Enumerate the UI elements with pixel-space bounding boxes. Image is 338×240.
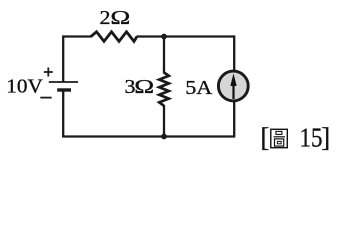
caption: CJK character "tu" (figure) drawn as strokes — [271, 129, 288, 147]
current source I1 arrow (pointing up) — [230, 73, 236, 99]
wire: 3-ohm resistor bottom lead to bottom node — [163, 105, 165, 137]
voltage source V1: battery short thick plate (-) — [57, 88, 71, 91]
resistor R1 body (2 ohm, horizontal zigzag) — [91, 32, 137, 42]
label: battery + polarity mark — [44, 68, 53, 77]
wire: battery + terminal up to top-left corner and across to 2-ohm resistor — [63, 37, 91, 83]
svg-text:2: 2 — [100, 6, 111, 29]
current source I1 body (5A, circle) — [218, 71, 248, 101]
label: battery - polarity mark — [40, 97, 51, 99]
voltage source V1: battery long thin plate (+) — [49, 81, 78, 83]
svg-text:[: [ — [260, 123, 269, 153]
resistor R2 body (3 ohm, vertical zigzag) — [159, 73, 169, 106]
node: bottom junction dot — [161, 134, 167, 140]
wire: bottom node across to bottom-right corner and up to current source bottom — [164, 102, 234, 137]
svg-text:Ω: Ω — [134, 76, 154, 98]
wire: battery - terminal down to bottom-left corner and across to bottom node — [63, 90, 164, 137]
svg-text:10V: 10V — [6, 76, 43, 97]
svg-text:15: 15 — [300, 124, 323, 153]
svg-text:Ω: Ω — [110, 7, 130, 29]
svg-text:]: ] — [321, 123, 330, 153]
node: top junction dot — [161, 34, 167, 40]
svg-text:5A: 5A — [185, 76, 213, 99]
wire: 3-ohm resistor top lead from top node — [163, 37, 165, 74]
wire: from 2-ohm resistor through top node to current source top — [137, 37, 235, 72]
